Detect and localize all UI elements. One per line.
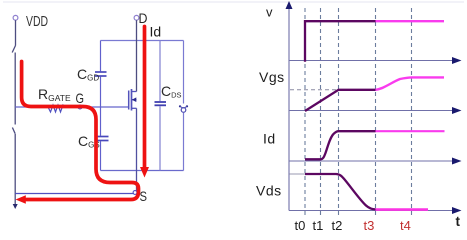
wire: driver low-side with switch <box>12 128 15 206</box>
time gridline t1 <box>320 8 322 217</box>
time gridline t0 <box>304 8 306 217</box>
capacitor CGS <box>95 137 109 141</box>
red Id arrowhead <box>140 167 149 178</box>
svg-text:S: S <box>140 188 148 204</box>
svg-text:VDD: VDD <box>26 14 48 30</box>
Vds waveform dark <box>305 174 376 209</box>
svg-text:t0: t0 <box>295 218 306 233</box>
Miller plateau dashed level <box>290 89 339 91</box>
wire: drain lead <box>136 20 138 91</box>
transistor MOSFET <box>129 89 137 111</box>
svg-text:v: v <box>266 5 273 20</box>
wire: driver high-side with switch <box>12 20 15 124</box>
wire: CGD/CGS branch <box>100 41 102 171</box>
red Id current path <box>143 27 147 168</box>
VDD terminal <box>13 15 18 20</box>
svg-text:Vds: Vds <box>256 183 282 199</box>
Id waveform magenta <box>376 130 445 132</box>
wire: source rail <box>101 170 184 172</box>
axis V panel <box>289 60 454 62</box>
svg-text:t3: t3 <box>364 218 375 233</box>
svg-text:Vgs: Vgs <box>259 69 285 85</box>
axis Id panel <box>289 160 454 162</box>
border top <box>3 1 464 3</box>
wire: source lead <box>136 108 138 192</box>
V waveform magenta <box>376 20 445 22</box>
time gridline t2 <box>338 8 340 217</box>
red gate current path <box>22 62 139 200</box>
wire: return wire <box>15 193 134 195</box>
Vds waveform magenta <box>376 208 429 211</box>
ground arrow <box>13 204 18 209</box>
wire: right branch lower <box>183 113 185 171</box>
node S <box>133 191 137 195</box>
svg-text:RGATE: RGATE <box>38 86 71 103</box>
Vgs waveform dark <box>305 90 376 111</box>
Vgs waveform magenta <box>376 77 445 89</box>
wire: gate wire <box>15 106 129 108</box>
MOSFET body arrow <box>132 97 137 102</box>
axis Vgs panel <box>289 110 454 112</box>
V waveform dark <box>305 21 376 62</box>
svg-text:Id: Id <box>263 131 276 147</box>
node D terminal <box>134 15 139 20</box>
svg-text:CGD: CGD <box>77 66 99 83</box>
svg-text:t4: t4 <box>400 218 411 233</box>
svg-text:Id: Id <box>150 24 162 40</box>
wire: top drain rail <box>101 40 184 42</box>
capacitor CGD <box>95 72 107 76</box>
svg-text:D: D <box>139 10 148 26</box>
svg-text:CDS: CDS <box>161 83 182 100</box>
svg-text:G: G <box>76 90 85 106</box>
resistor RGATE zigzag <box>48 105 65 112</box>
voltage axis vertical <box>288 7 290 211</box>
node G <box>78 105 82 109</box>
voltage axis arrow up <box>286 1 293 9</box>
red return arrowhead <box>16 195 26 204</box>
wire: CDS branch <box>159 41 161 171</box>
capacitor CDS <box>155 102 167 105</box>
axis Vds panel <box>289 210 454 212</box>
svg-text:t: t <box>456 214 461 229</box>
svg-text:t2: t2 <box>332 218 343 233</box>
Vds lead line <box>290 173 306 175</box>
time gridline t4 <box>411 8 413 217</box>
Id waveform dark <box>305 131 376 159</box>
svg-text:t1: t1 <box>313 218 324 233</box>
wire: right branch <box>183 41 185 104</box>
time gridline t3 <box>375 8 377 217</box>
load loop symbol <box>179 105 188 112</box>
